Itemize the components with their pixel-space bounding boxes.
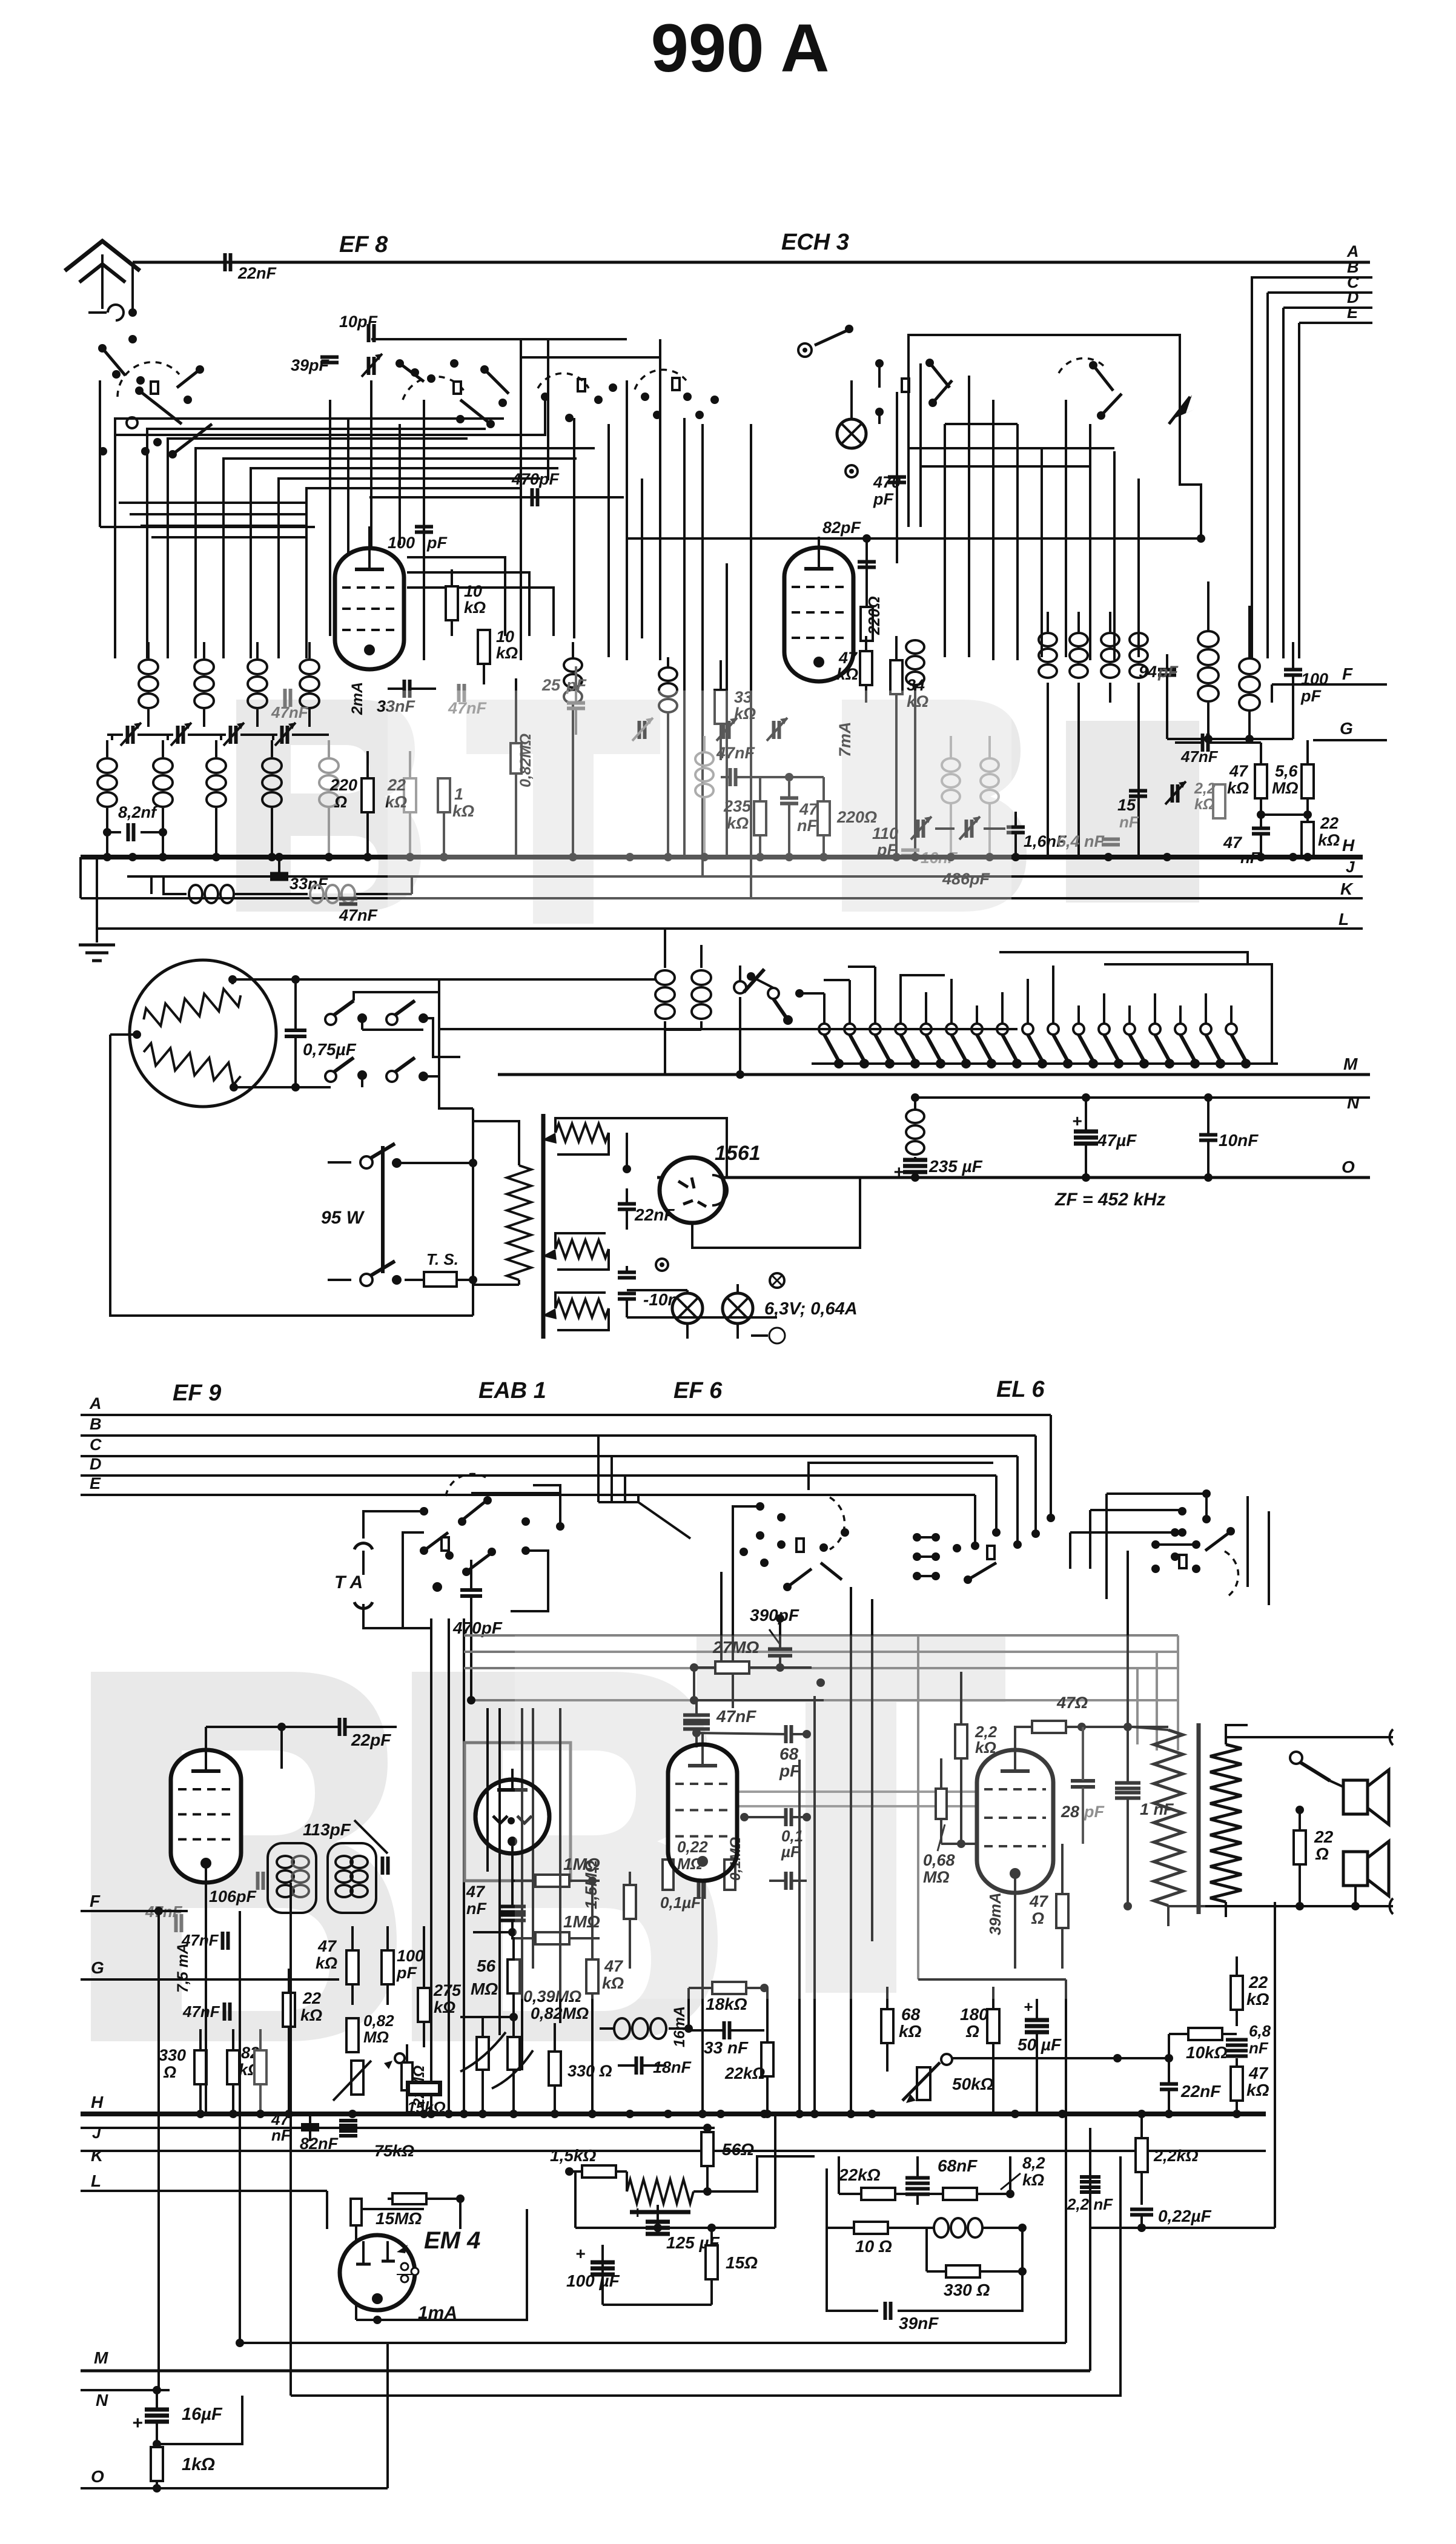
svg-text:7,5 mA: 7,5 mA: [174, 1943, 191, 1993]
resistor 1M a: [535, 1875, 569, 1887]
junction: [760, 2110, 769, 2118]
inductor: [906, 640, 924, 654]
svg-text:pF: pF: [396, 1964, 417, 1982]
switch spk: [1290, 1752, 1302, 1764]
capacitor 94pF: [1158, 668, 1176, 672]
inductor low: [934, 2218, 948, 2238]
junction: [1163, 853, 1171, 861]
inductor: [1137, 612, 1140, 632]
svg-text:kΩ: kΩ: [1227, 779, 1249, 797]
wire: [598, 1501, 638, 1503]
wire: [875, 359, 884, 368]
junction: [427, 2110, 435, 2118]
resistor 56M: [508, 1959, 520, 1993]
resistor 22M: [402, 2062, 412, 2090]
wire: [1168, 2034, 1170, 2058]
wire: [223, 457, 575, 658]
junction: [626, 853, 634, 861]
svg-text:1mA: 1mA: [418, 2303, 457, 2323]
resistor 10k: [446, 586, 458, 620]
resistor 68k low: [881, 2009, 893, 2043]
junction: [1011, 2110, 1019, 2118]
wire: [1180, 400, 1201, 538]
svg-text:EF 8: EF 8: [339, 232, 388, 257]
wire: [925, 992, 927, 1024]
svg-text:33 nF: 33 nF: [704, 2038, 749, 2057]
junction: [509, 2110, 518, 2118]
wire: [607, 424, 610, 657]
inductor coil: [308, 642, 311, 658]
switch EF6 dots: [756, 1502, 764, 1511]
junction: [159, 853, 167, 861]
transformer secondary 3: [555, 1299, 609, 1317]
trimmer capacitor: [367, 357, 371, 375]
bus F2: [81, 1910, 188, 1912]
wire: [472, 1108, 474, 1316]
wire: [823, 993, 826, 1024]
svg-text:275: 275: [433, 1981, 462, 1999]
svg-text:O: O: [1342, 1158, 1355, 1176]
svg-text:A: A: [89, 1394, 102, 1413]
wire: [1090, 2227, 1275, 2229]
switch S1 contacts: [128, 335, 137, 343]
junction: [810, 2110, 819, 2118]
resistor 330 b: [549, 2052, 561, 2085]
svg-text:+: +: [1024, 1998, 1033, 2016]
svg-text:47nF: 47nF: [182, 2002, 220, 2021]
svg-text:nF: nF: [1249, 2039, 1269, 2057]
svg-text:J: J: [1346, 858, 1355, 876]
capacitor 16nF: [901, 849, 919, 852]
resistor 15k: [409, 2083, 439, 2094]
bus G: [1313, 739, 1387, 741]
EAB1 shield box: [465, 1743, 571, 1881]
capacitor 470pF low: [460, 1588, 482, 1592]
trimmer: [916, 820, 920, 838]
inductor coil: [256, 642, 259, 658]
svg-text:kΩ: kΩ: [1194, 796, 1214, 813]
junction: [664, 853, 672, 861]
bus D lower: [81, 1474, 996, 1477]
capacitor 0.1uF b: [697, 1881, 701, 1899]
wire: [547, 339, 549, 480]
switch S2 contacts: [427, 374, 435, 383]
wire: [974, 1495, 976, 1546]
resistor 180: [987, 2009, 999, 2043]
svg-text:47: 47: [466, 1883, 486, 1901]
svg-text:G: G: [91, 1958, 104, 1977]
junction: [569, 853, 577, 861]
wire: [750, 424, 752, 898]
tube EF8: [335, 548, 404, 669]
switch S5 lever: [930, 363, 950, 388]
svg-text:47: 47: [317, 1937, 337, 1955]
svg-text:1kΩ: 1kΩ: [182, 2455, 215, 2474]
wire: [141, 525, 306, 527]
switch mains1: [328, 1161, 351, 1164]
svg-text:G: G: [1340, 719, 1353, 738]
svg-text:470: 470: [873, 473, 901, 491]
junction: [911, 853, 919, 861]
capacitor 470pF: [369, 496, 624, 499]
resistor 0.82M b: [346, 2018, 359, 2052]
bus O2: [81, 2487, 388, 2489]
dial lamp 2: [723, 1293, 753, 1323]
wire: [111, 735, 113, 740]
resistor 0.82M c: [508, 2037, 520, 2070]
wire: [167, 735, 169, 740]
IF transformer: [655, 970, 675, 985]
capacitor 10pF: [367, 324, 371, 342]
capacitor 0.1uF d: [784, 1808, 788, 1826]
wire: [1077, 1005, 1080, 1024]
wire: [1354, 1886, 1357, 1906]
junction: [460, 2110, 468, 2118]
inductor filter: [906, 1110, 924, 1123]
wire: [130, 513, 306, 515]
antenna: [65, 241, 140, 271]
trimmer capacitor: [280, 726, 284, 744]
wire: [849, 980, 851, 1024]
inductor coil: [215, 740, 217, 757]
capacitor 22nF: [223, 253, 227, 271]
resistor 0.39M: [477, 2037, 489, 2070]
svg-text:pF: pF: [426, 534, 448, 552]
svg-text:EF 6: EF 6: [673, 1378, 723, 1403]
tube EAB1 top: [475, 1780, 549, 1853]
wire: [1065, 1979, 1067, 2343]
wire: [407, 557, 505, 636]
wire: [874, 967, 876, 1024]
feedback resistor: [626, 2171, 628, 2191]
tube EF6 top: [668, 1744, 737, 1881]
svg-text:330: 330: [159, 2046, 186, 2064]
svg-text:22: 22: [1320, 814, 1339, 832]
switch S2 arc: [403, 377, 466, 400]
wire: [309, 2114, 311, 2124]
wire: [386, 2343, 389, 2488]
switch S2 levers: [400, 363, 424, 382]
svg-text:M: M: [1343, 1055, 1358, 1073]
switch box EF6: [733, 1506, 760, 1551]
svg-text:95 W: 95 W: [321, 1208, 365, 1228]
resistor 22k rc: [1231, 1976, 1243, 2010]
bus M: [498, 1073, 1370, 1076]
wire: [329, 400, 331, 636]
terminal: [772, 1330, 783, 1341]
wire: [119, 502, 306, 504]
wire: [205, 1727, 207, 1750]
switch lever EF6: [787, 1569, 812, 1587]
capacitor 33nF c: [723, 2021, 726, 2039]
trimmer capacitor: [229, 726, 233, 744]
svg-text:MΩ: MΩ: [1272, 779, 1299, 797]
bus K2: [81, 2150, 1266, 2152]
resistor 47k eab: [586, 1959, 598, 1993]
junction: [103, 853, 111, 861]
svg-text:106pF: 106pF: [209, 1887, 257, 1906]
EM4 inner: [362, 2241, 365, 2265]
wire: [606, 1118, 727, 1178]
resistor 220 b: [818, 801, 830, 835]
wire: [1251, 276, 1253, 658]
switch rect: [902, 379, 909, 392]
resistor 47k: [860, 651, 872, 685]
wire: [439, 1028, 1018, 1030]
resistor 1k low: [151, 2447, 163, 2481]
svg-text:ECH 3: ECH 3: [781, 230, 849, 255]
bus H2: [81, 2112, 1266, 2116]
resistor 82k: [227, 2050, 239, 2084]
inductor: [1109, 612, 1111, 632]
bus J2: [81, 2127, 715, 2129]
svg-text:10pF: 10pF: [339, 313, 379, 331]
wire: [732, 1551, 734, 1708]
junction: [229, 2110, 237, 2118]
wire box sel: [354, 992, 439, 1001]
svg-text:M: M: [94, 2348, 108, 2367]
wire: [272, 735, 274, 740]
svg-text:10: 10: [496, 628, 514, 646]
svg-text:T. S.: T. S.: [426, 1250, 458, 1268]
svg-text:+: +: [893, 1162, 904, 1182]
wire: [626, 380, 628, 660]
wire: [234, 1086, 296, 1088]
capacitor 47nF d: [780, 797, 798, 800]
capacitor 47uF: [1074, 1130, 1098, 1134]
wire: [157, 2396, 242, 2444]
svg-text:nF: nF: [466, 1900, 487, 1918]
wire: [520, 339, 522, 660]
capacitor 50uF: [1025, 2018, 1049, 2022]
capacitor 47nF: [457, 684, 461, 702]
svg-text:18nF: 18nF: [653, 2058, 692, 2076]
transformer primary: [507, 1165, 531, 1280]
capacitor 1nF: [1115, 1781, 1140, 1785]
svg-text:EAB 1: EAB 1: [478, 1378, 546, 1403]
inductor coil: [147, 642, 150, 658]
wire: [919, 363, 922, 527]
resistor 1.5M: [624, 1885, 636, 1919]
wire: [573, 418, 575, 638]
svg-text:100: 100: [388, 534, 415, 552]
fuse TS: [424, 1272, 457, 1287]
svg-text:22pF: 22pF: [351, 1731, 391, 1749]
svg-text:+: +: [632, 2203, 642, 2222]
svg-text:220: 220: [329, 776, 357, 794]
switch levers AB: [460, 1502, 485, 1522]
wire: [233, 978, 657, 981]
svg-text:O: O: [91, 2467, 104, 2486]
resistor 2.2k: [1213, 784, 1225, 818]
tube EF9: [171, 1750, 241, 1883]
junction: [700, 853, 709, 861]
EAB1 inner: [511, 1769, 514, 1790]
capacitor 47nF e: [1201, 734, 1205, 752]
trimmer: [722, 721, 726, 739]
wire: [1090, 1509, 1182, 1511]
svg-text:47nF: 47nF: [1180, 747, 1219, 766]
inductor eab: [614, 2018, 630, 2039]
small lamp sym: [656, 1259, 668, 1271]
resistor 22k row: [861, 2188, 895, 2200]
bus G2: [81, 1978, 339, 1981]
svg-text:2,2kΩ: 2,2kΩ: [1153, 2147, 1199, 2165]
capacitor 106pF: [256, 1872, 260, 1890]
wire: [1113, 451, 1116, 660]
wire: [290, 1883, 292, 2396]
resistor 47k r: [1255, 764, 1267, 798]
resistor 22k ef9: [283, 1993, 295, 2027]
svg-text:82pF: 82pF: [822, 518, 862, 537]
svg-text:10: 10: [464, 582, 482, 600]
wire line to osc: [627, 537, 1201, 540]
wire: [1271, 684, 1273, 703]
pointer arrow: [1175, 395, 1194, 418]
output transformer primary: [1154, 1730, 1183, 1906]
inductor coil: [203, 642, 205, 658]
resistor 2.2k low: [1136, 2138, 1148, 2172]
svg-text:47nF: 47nF: [271, 703, 309, 721]
wire: [147, 428, 485, 658]
bus F: [1272, 683, 1387, 686]
wire: [686, 1323, 689, 1339]
switch lever EL6: [1205, 1532, 1229, 1551]
wire: [726, 563, 728, 857]
junction: [664, 2110, 672, 2118]
wire: [952, 2057, 1169, 2059]
wire: [403, 1627, 431, 1629]
wire: [1070, 1531, 1182, 1534]
resistor 1M b: [535, 1932, 569, 1944]
junction: [348, 2110, 357, 2118]
wire: [1065, 400, 1067, 657]
wire: [798, 1760, 801, 2114]
svg-text:22nF: 22nF: [237, 264, 277, 282]
svg-text:47: 47: [1248, 2064, 1269, 2082]
svg-text:22kΩ: 22kΩ: [838, 2165, 881, 2184]
wire: [1137, 479, 1140, 657]
resistor 8.2k row: [943, 2188, 977, 2200]
wire: [521, 1708, 523, 2070]
junction: [847, 2110, 855, 2118]
svg-text:390pF: 390pF: [750, 1606, 799, 1625]
wire: [157, 1911, 160, 2390]
svg-text:50 µF: 50 µF: [1018, 2035, 1062, 2054]
svg-text:kΩ: kΩ: [1246, 2081, 1269, 2099]
junction: [285, 2110, 293, 2118]
bus M2: [81, 2370, 1090, 2373]
wire: [1105, 1494, 1108, 1599]
wire: [1107, 1492, 1206, 1495]
wire: [683, 418, 686, 857]
wire box: [908, 335, 1180, 527]
wire: [220, 735, 222, 740]
wire: [368, 526, 371, 537]
svg-text:56Ω: 56Ω: [722, 2140, 754, 2159]
svg-text:N: N: [96, 2391, 108, 2410]
rectifier 1561: [660, 1158, 725, 1223]
resistor 47 cath: [1056, 1894, 1068, 1928]
switch bar: [381, 1146, 385, 1273]
svg-text:kΩ: kΩ: [1022, 2171, 1044, 2189]
svg-text:H: H: [91, 2093, 104, 2112]
switch S6 lever: [1093, 365, 1113, 391]
svg-text:94: 94: [1139, 663, 1157, 681]
junction: [128, 853, 137, 861]
resistor 15: [706, 2245, 718, 2279]
svg-text:kΩ: kΩ: [496, 644, 518, 662]
junction: [256, 2110, 265, 2118]
wire: [1016, 1456, 1019, 1545]
capacitor 113pF: [381, 1857, 385, 1875]
capacitor 47nF trio2: [221, 1932, 225, 1950]
resistor 47k ef9: [346, 1950, 359, 1984]
svg-text:8,2: 8,2: [1022, 2154, 1045, 2172]
wire: [1052, 966, 1054, 1024]
svg-text:kΩ: kΩ: [836, 665, 858, 683]
wire: [692, 1178, 860, 1248]
inductor: [981, 758, 999, 772]
wire gray mid: [735, 1790, 1005, 1793]
wire: [1282, 308, 1285, 658]
speaker 1: [1343, 1780, 1368, 1814]
wire box: [471, 1493, 560, 1526]
inductor: [1047, 612, 1049, 632]
svg-text:F: F: [1342, 664, 1353, 683]
junction: [985, 853, 994, 861]
svg-text:10nF: 10nF: [1219, 1131, 1259, 1150]
tube EL6: [977, 1750, 1053, 1893]
output transformer secondary: [1210, 1744, 1242, 1902]
svg-text:16µF: 16µF: [182, 2405, 223, 2424]
dial lamp 1: [672, 1293, 703, 1323]
wire: [1103, 993, 1105, 1024]
svg-text:Ω: Ω: [163, 2063, 176, 2081]
resistor 33k: [715, 690, 727, 724]
resistor 10k 2: [478, 630, 490, 664]
wire: [1016, 424, 1019, 660]
resistor 235k: [754, 801, 766, 835]
svg-text:47nF: 47nF: [339, 906, 379, 924]
capacitor 47nF trio: [174, 1914, 178, 1932]
trimmer capacitor: [176, 726, 180, 744]
svg-text:kΩ: kΩ: [434, 1998, 455, 2016]
junction: [716, 2110, 725, 2118]
wire: [968, 376, 970, 657]
wire down bundle: [430, 1618, 432, 2114]
wire: [992, 400, 994, 660]
svg-text:6,8: 6,8: [1249, 2022, 1271, 2040]
capacitor 2.2nF: [1080, 2175, 1100, 2179]
inductor: [1077, 612, 1080, 632]
wire box EM4: [356, 2209, 424, 2320]
selector levers: [824, 1035, 839, 1061]
switch dots: [420, 1507, 428, 1515]
inductor big: [1198, 631, 1219, 647]
svg-text:+: +: [575, 2244, 585, 2263]
wire: [941, 1843, 977, 1845]
wire: [1251, 277, 1253, 658]
rectifier electrodes: [678, 1178, 694, 1188]
svg-text:220Ω: 220Ω: [865, 596, 883, 635]
wire: [826, 2168, 828, 2210]
wire sec top: [1226, 1736, 1393, 1738]
inductor: [659, 667, 677, 681]
capacitor 470pF v: [896, 392, 898, 563]
bus O: [657, 1176, 1370, 1179]
svg-text:F: F: [90, 1892, 101, 1910]
